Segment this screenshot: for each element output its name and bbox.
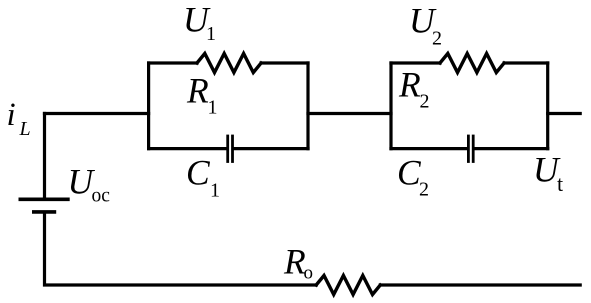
wire: R2C2 block left edge	[389, 63, 392, 149]
wire: R1 top-right lead	[261, 61, 308, 64]
wire: R2C2 block right edge	[546, 63, 549, 149]
wire: R1 top-left lead	[149, 61, 197, 64]
capacitor C1 right plate	[231, 136, 234, 162]
svg-text:C: C	[397, 153, 421, 193]
wire: R2 top-right lead	[504, 61, 548, 64]
svg-text:C: C	[186, 153, 210, 193]
capacitor C1 left plate	[226, 136, 229, 162]
wire: link between R1C1 block and R2C2 block	[308, 112, 391, 115]
source label U_oc	[68, 162, 111, 207]
svg-text:t: t	[557, 171, 563, 196]
svg-text:1: 1	[208, 97, 218, 119]
label R_2	[398, 65, 430, 113]
battery U_oc positive plate (long)	[20, 198, 68, 202]
label C_2	[397, 153, 429, 201]
wire: R2 top-left lead	[391, 61, 440, 64]
wire: output terminal top (Ut +)	[548, 112, 581, 115]
current label i_L	[7, 97, 31, 140]
wire: bottom rail from Ro to right output terminal (Ut -)	[380, 283, 580, 286]
resistor R1 zigzag	[197, 54, 261, 73]
battery U_oc negative plate (short)	[34, 210, 55, 214]
svg-text:1: 1	[206, 23, 216, 45]
wire: C1 bottom-right lead	[234, 147, 308, 150]
svg-text:R: R	[186, 71, 209, 111]
svg-text:2: 2	[432, 28, 442, 50]
wire: battery negative plate down and bottom rail to Ro	[45, 214, 317, 286]
wire: left vertical from node down to battery positive plate	[43, 114, 46, 198]
label U_2	[409, 1, 442, 50]
wire: C1 bottom-left lead	[149, 147, 227, 150]
svg-text:R: R	[398, 65, 421, 105]
label U_t	[533, 150, 563, 197]
label R_1	[186, 71, 218, 119]
wire: C2 bottom-left lead	[391, 147, 467, 150]
label C_1	[186, 153, 220, 202]
wire: R1C1 block right edge	[306, 63, 309, 149]
svg-text:L: L	[19, 118, 31, 140]
svg-text:oc: oc	[92, 186, 111, 207]
svg-text:1: 1	[210, 179, 220, 201]
svg-text:i: i	[7, 97, 16, 133]
capacitor C2 right plate	[472, 136, 475, 162]
resistor R2 zigzag	[440, 54, 504, 73]
label R_o	[283, 242, 313, 284]
capacitor C2 left plate	[467, 136, 470, 162]
svg-text:o: o	[304, 263, 314, 284]
svg-text:2: 2	[420, 91, 430, 113]
resistor Ro zigzag	[316, 276, 380, 295]
wire: C2 bottom-right lead	[475, 147, 548, 150]
wire: top-left horizontal from battery branch node to R1C1 block	[45, 112, 149, 115]
svg-text:2: 2	[419, 178, 429, 200]
wire: R1C1 block left edge	[147, 63, 150, 149]
label U_1	[183, 0, 216, 45]
